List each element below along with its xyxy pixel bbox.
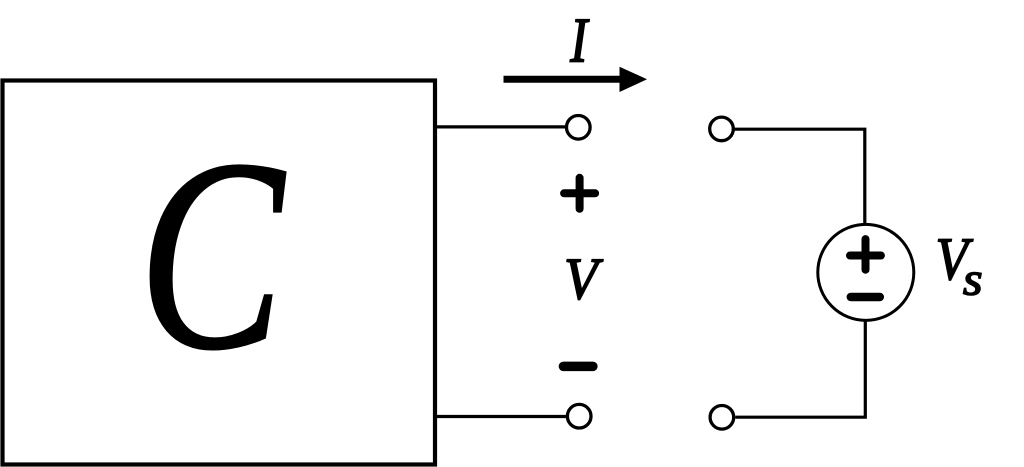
svg-text:I: I — [569, 6, 589, 75]
svg-text:V: V — [564, 246, 603, 312]
svg-text:s: s — [963, 252, 983, 305]
svg-text:C: C — [138, 102, 286, 406]
